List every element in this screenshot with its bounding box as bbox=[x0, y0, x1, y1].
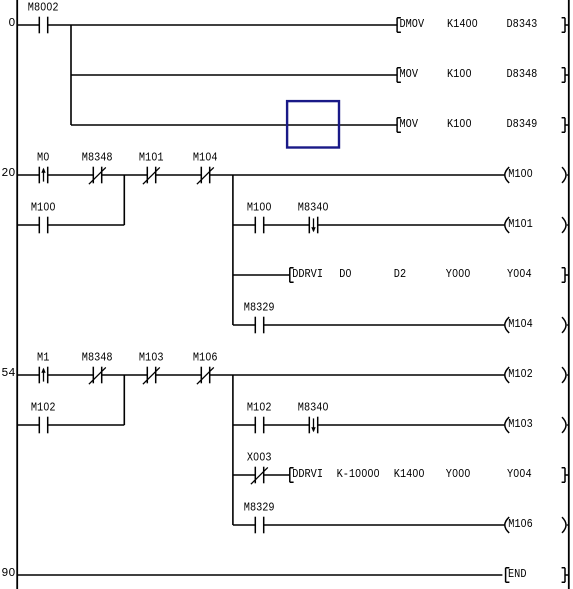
contact M101 (NC) bbox=[143, 167, 160, 185]
device label M100 bbox=[247, 201, 272, 215]
device label M0 bbox=[37, 151, 49, 165]
step number 90 bbox=[1, 566, 15, 580]
branch wire (sub-outputs) bbox=[232, 375, 234, 525]
svg-text:Y004: Y004 bbox=[507, 267, 532, 281]
svg-text:K1400: K1400 bbox=[394, 467, 425, 481]
instruction name DDRVI bbox=[292, 467, 323, 481]
instruction END close bracket bbox=[562, 568, 569, 582]
operand K100 bbox=[447, 117, 472, 131]
svg-text:54: 54 bbox=[1, 366, 15, 380]
device label M106 bbox=[193, 351, 218, 365]
contact M104 (NC) bbox=[197, 167, 214, 185]
wire bbox=[18, 224, 40, 226]
wire bbox=[233, 274, 290, 276]
wire bbox=[156, 374, 202, 376]
device label M104 bbox=[193, 151, 218, 165]
coil M103 left paren bbox=[505, 417, 509, 433]
wire bbox=[233, 524, 255, 526]
device label M1 bbox=[37, 351, 49, 365]
contact M0 (rising edge) bbox=[39, 167, 47, 184]
contact M106 (NC) bbox=[197, 367, 214, 385]
wire bbox=[18, 574, 503, 576]
wire bbox=[102, 374, 148, 376]
coil M104 label bbox=[508, 317, 533, 331]
contact M103 (NC) bbox=[143, 367, 160, 385]
instruction name MOV bbox=[400, 67, 419, 81]
svg-text:D8343: D8343 bbox=[507, 17, 538, 31]
wire bbox=[264, 424, 310, 426]
instruction MOV open bracket bbox=[397, 118, 401, 133]
svg-text:M8340: M8340 bbox=[298, 401, 329, 415]
coil M100 label bbox=[508, 167, 533, 181]
contact M1 (rising edge) bbox=[39, 367, 47, 384]
contact M8348 (NC) bbox=[89, 167, 106, 185]
wire bbox=[210, 374, 505, 376]
svg-text:D0: D0 bbox=[339, 267, 351, 281]
wire bbox=[233, 474, 255, 476]
svg-text:M104: M104 bbox=[193, 151, 218, 165]
svg-text:M101: M101 bbox=[508, 217, 533, 231]
wire bbox=[264, 524, 505, 526]
svg-text:MOV: MOV bbox=[400, 117, 419, 131]
operand Y004 bbox=[507, 467, 532, 481]
svg-text:M1: M1 bbox=[37, 351, 49, 365]
coil M102 left paren bbox=[505, 367, 509, 383]
operand D0 bbox=[339, 267, 351, 281]
coil M101 right paren bbox=[562, 217, 569, 233]
svg-text:M103: M103 bbox=[508, 417, 533, 431]
device label M100 bbox=[31, 201, 56, 215]
device label M8348 bbox=[82, 351, 113, 365]
wire bbox=[48, 224, 125, 226]
instruction name MOV bbox=[400, 117, 419, 131]
contact M102 (NO) bbox=[39, 417, 47, 434]
coil M101 left paren bbox=[505, 217, 509, 233]
instruction name DDRVI bbox=[292, 267, 323, 281]
coil M103 label bbox=[508, 417, 533, 431]
step number 0 bbox=[8, 16, 15, 30]
left power rail bbox=[16, 0, 18, 589]
coil M104 right paren bbox=[562, 317, 569, 333]
operand K1400 bbox=[394, 467, 425, 481]
wire bbox=[102, 174, 148, 176]
instruction DDRVI close bracket bbox=[562, 468, 569, 482]
contact M8340 (falling edge) bbox=[309, 417, 317, 434]
wire bbox=[48, 374, 94, 376]
wire bbox=[233, 224, 255, 226]
branch wire (parallel M102) bbox=[123, 375, 125, 425]
step number 20 bbox=[1, 166, 15, 180]
svg-text:M102: M102 bbox=[31, 401, 56, 415]
coil M100 right paren bbox=[562, 167, 569, 183]
operand K-10000 bbox=[337, 467, 380, 481]
instruction DDRVI open bracket bbox=[290, 268, 294, 283]
wire bbox=[71, 124, 397, 126]
wire bbox=[233, 424, 255, 426]
contact M8329 (NO) bbox=[255, 517, 263, 534]
device label M102 bbox=[31, 401, 56, 415]
wire bbox=[233, 324, 255, 326]
coil M103 right paren bbox=[562, 417, 569, 433]
svg-text:X003: X003 bbox=[247, 451, 272, 465]
coil M104 left paren bbox=[505, 317, 509, 333]
svg-text:END: END bbox=[508, 567, 527, 581]
branch wire (sub-outputs) bbox=[232, 175, 234, 325]
svg-text:M8340: M8340 bbox=[298, 201, 329, 215]
svg-text:M104: M104 bbox=[508, 317, 533, 331]
contact M100 (NO) bbox=[255, 217, 263, 234]
wire bbox=[210, 174, 505, 176]
svg-text:Y004: Y004 bbox=[507, 467, 532, 481]
contact M8329 (NO) bbox=[255, 317, 263, 334]
device label M103 bbox=[139, 351, 164, 365]
contact M8348 (NC) bbox=[89, 367, 106, 385]
wire bbox=[264, 324, 505, 326]
instruction DDRVI open bracket bbox=[290, 468, 294, 483]
device label M8002 bbox=[28, 1, 59, 15]
operand D2 bbox=[394, 267, 406, 281]
instruction END open bracket bbox=[506, 568, 510, 583]
operand D8348 bbox=[507, 67, 538, 81]
coil M102 right paren bbox=[562, 367, 569, 383]
operand D8349 bbox=[507, 117, 538, 131]
coil M102 label bbox=[508, 367, 533, 381]
device label M8340 bbox=[298, 201, 329, 215]
device label M8329 bbox=[244, 301, 275, 315]
svg-text:M0: M0 bbox=[37, 151, 49, 165]
coil M106 label bbox=[508, 517, 533, 531]
instruction name END bbox=[508, 567, 527, 581]
wire bbox=[48, 24, 397, 26]
svg-text:M8348: M8348 bbox=[82, 351, 113, 365]
branch wire (outputs of rung 0) bbox=[70, 25, 72, 125]
edit cursor (blue selection box) bbox=[287, 101, 339, 147]
svg-text:MOV: MOV bbox=[400, 67, 419, 81]
svg-text:K1400: K1400 bbox=[447, 17, 478, 31]
contact M102 (NO) bbox=[255, 417, 263, 434]
wire bbox=[18, 24, 40, 26]
wire bbox=[48, 424, 125, 426]
step number 54 bbox=[1, 366, 15, 380]
svg-text:M106: M106 bbox=[508, 517, 533, 531]
svg-text:M8329: M8329 bbox=[244, 501, 275, 515]
contact M8002 (NO) bbox=[39, 17, 47, 34]
instruction DMOV close bracket bbox=[562, 18, 569, 32]
svg-text:M8348: M8348 bbox=[82, 151, 113, 165]
svg-text:M103: M103 bbox=[139, 351, 164, 365]
svg-text:DDRVI: DDRVI bbox=[292, 467, 323, 481]
instruction MOV open bracket bbox=[397, 68, 401, 83]
wire bbox=[18, 374, 40, 376]
instruction MOV close bracket bbox=[562, 68, 569, 82]
operand K100 bbox=[447, 67, 472, 81]
device label M8340 bbox=[298, 401, 329, 415]
wire bbox=[264, 224, 310, 226]
svg-text:20: 20 bbox=[1, 166, 15, 180]
operand K1400 bbox=[447, 17, 478, 31]
branch wire (parallel M100) bbox=[123, 175, 125, 225]
operand Y000 bbox=[446, 467, 471, 481]
instruction name DMOV bbox=[400, 17, 425, 31]
wire bbox=[318, 424, 505, 426]
right power rail bbox=[568, 0, 570, 589]
contact X003 (NC) bbox=[251, 467, 268, 485]
wire bbox=[264, 474, 290, 476]
svg-text:90: 90 bbox=[1, 566, 15, 580]
instruction DMOV open bracket bbox=[397, 18, 401, 33]
coil M106 right paren bbox=[562, 517, 569, 533]
wire bbox=[48, 174, 94, 176]
wire bbox=[156, 174, 202, 176]
operand Y004 bbox=[507, 267, 532, 281]
svg-text:M106: M106 bbox=[193, 351, 218, 365]
instruction DDRVI close bracket bbox=[562, 268, 569, 282]
coil M106 left paren bbox=[505, 517, 509, 533]
coil M101 label bbox=[508, 217, 533, 231]
wire bbox=[18, 424, 40, 426]
svg-text:M102: M102 bbox=[508, 367, 533, 381]
wire bbox=[71, 74, 397, 76]
svg-text:M102: M102 bbox=[247, 401, 272, 415]
device label M101 bbox=[139, 151, 164, 165]
device label M102 bbox=[247, 401, 272, 415]
svg-text:DMOV: DMOV bbox=[400, 17, 425, 31]
device label X003 bbox=[247, 451, 272, 465]
svg-text:DDRVI: DDRVI bbox=[292, 267, 323, 281]
svg-text:D8348: D8348 bbox=[507, 67, 538, 81]
contact M8340 (falling edge) bbox=[309, 217, 317, 234]
svg-text:M8329: M8329 bbox=[244, 301, 275, 315]
svg-text:D2: D2 bbox=[394, 267, 406, 281]
wire bbox=[318, 224, 505, 226]
operand Y000 bbox=[446, 267, 471, 281]
coil M100 left paren bbox=[505, 167, 509, 183]
device label M8348 bbox=[82, 151, 113, 165]
instruction MOV close bracket bbox=[562, 118, 569, 132]
wire bbox=[18, 174, 40, 176]
svg-text:M101: M101 bbox=[139, 151, 164, 165]
svg-text:D8349: D8349 bbox=[507, 117, 538, 131]
operand D8343 bbox=[507, 17, 538, 31]
contact M100 (NO) bbox=[39, 217, 47, 234]
device label M8329 bbox=[244, 501, 275, 515]
